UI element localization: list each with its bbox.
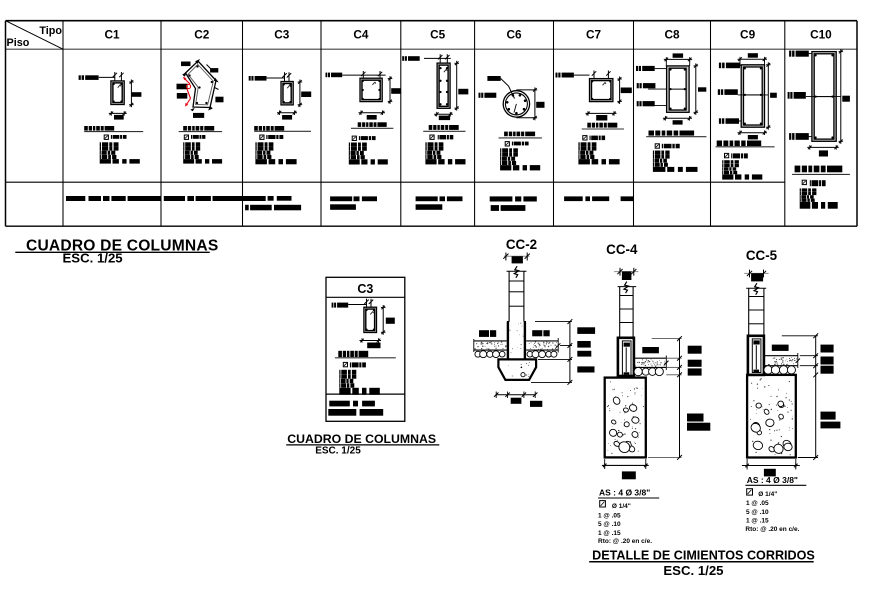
column C9 bottom dimension [738,132,768,134]
bottom row note C4 [330,196,377,209]
column C6 label bars [487,76,500,81]
CC-4 slab label bar [642,347,659,353]
column C1 section [111,81,124,105]
C3 detail section [364,307,377,332]
column C3 label bar [249,76,251,81]
C3 detail table frame [326,277,405,421]
column C6 leader line [501,79,515,99]
column C4 section [360,78,382,101]
column C1 leader + stirrup extensions [114,72,116,85]
svg-text:ESC. 1/25: ESC. 1/25 [315,446,361,457]
svg-text:C10: C10 [810,28,832,42]
CC-5 right dimension stack [782,333,841,460]
CC-2 bottom dimension [494,392,542,407]
CC-2 right dimension stack [531,319,595,385]
column C8 spec text [646,131,706,172]
C3 detail bottom dimension [360,340,382,342]
table grid [6,21,858,227]
column C5 bottom dimension [434,113,453,115]
svg-text:CC-4: CC-4 [606,242,638,257]
svg-text:1 @ .05: 1 @ .05 [746,500,769,507]
CC-5 top width dimension [744,272,768,274]
column C7 spec text [578,123,624,165]
column C5 leader + stirrup extensions [439,54,441,64]
column C9 right dimension [767,62,769,129]
svg-text:Ø 1/4": Ø 1/4" [612,503,631,510]
column C3 section [281,82,293,105]
CC-4 column shaft with break [618,282,637,338]
svg-text:C2: C2 [194,28,210,42]
svg-text:1 @ .05: 1 @ .05 [598,512,621,519]
column C2 label bars [181,62,191,67]
CC-4 top width dimension [614,271,638,273]
CC-4 right floor slab [634,356,668,376]
svg-text:5 @ .10: 5 @ .10 [746,509,769,516]
column C5 right dimension [456,61,458,111]
column C7 right dimension [619,77,621,104]
svg-text:CC-2: CC-2 [506,237,537,252]
column C1 spec text [84,126,143,164]
CC-5 right floor slab [764,353,800,374]
svg-text:C7: C7 [586,28,602,42]
svg-text:C3: C3 [357,282,373,296]
C3 detail spec text [335,351,396,395]
CC-5 slab label bar [772,345,789,351]
CC-2 slab label bars [479,330,489,337]
column C6 right dimension [516,89,536,91]
column C3 right dimension [299,80,301,108]
CC-2 right floor slab [526,338,560,358]
CC-2 footing [498,359,536,380]
svg-text:AS : 4 Ø 3/8": AS : 4 Ø 3/8" [599,488,650,498]
column C4 label bar [326,73,328,78]
column C4 right dimension [389,76,391,104]
svg-text:C6: C6 [506,28,522,42]
column C5 section [437,63,450,108]
column C8 bottom dimension [663,117,692,119]
column C9 section (two compartments) [741,65,764,127]
column C10 section (two compartments, tall) [812,52,836,142]
column C4 spec text [349,122,394,164]
bottom row note C1 [66,196,161,201]
svg-text:C9: C9 [740,28,756,42]
svg-text:ESC. 1/25: ESC. 1/25 [663,563,723,578]
svg-text:5 @ .10: 5 @ .10 [598,521,621,528]
column C9 label bars + leaders [719,63,721,69]
column C8 label bars + leaders [636,66,638,71]
column C10 right dimension [840,49,842,144]
column C6 circular section [503,91,529,117]
column C3 spec text [254,126,311,164]
column C7 section [590,79,613,102]
svg-text:C8: C8 [664,28,680,42]
column C6 spec text [499,132,542,171]
column C10 spec text [792,166,850,209]
svg-text:CC-5: CC-5 [746,248,778,263]
CC-2 top width dimension [504,255,530,257]
CC-5 column shaft with break [746,283,766,336]
column C7 label bar [556,73,558,78]
svg-text:CUADRO DE COLUMNAS: CUADRO DE COLUMNAS [287,432,436,446]
svg-text:1 @ .15: 1 @ .15 [746,518,769,525]
bottom row note C5 [416,196,463,209]
column C5 spec text [423,125,465,164]
C3 detail right dimension [382,305,384,335]
CC-5 rebar note AS [745,475,806,533]
CC-2 buried column [507,322,526,360]
column C9 spec text [716,141,775,180]
svg-text:DETALLE DE CIMIENTOS CORRIDOS: DETALLE DE CIMIENTOS CORRIDOS [592,548,815,562]
svg-text:AS : 4 Ø 3/8": AS : 4 Ø 3/8" [747,475,798,485]
column C5 label bar [402,56,404,61]
svg-text:Piso: Piso [7,37,30,49]
C3 detail leader + stirrup extensions [366,299,368,309]
column C10 bottom dimension [807,146,838,148]
column C4 leader + stirrup extensions [362,71,364,79]
column C8 right dimension [695,63,697,114]
CC-4 footing with stones [605,378,646,458]
CC-5 footing with stones [747,375,796,458]
column C3 leader + stirrup extensions [284,72,286,82]
svg-text:C1: C1 [104,28,120,42]
CC-2 left floor slab [474,339,507,358]
column C4 bottom dimension [359,112,386,114]
svg-text:Ø 1/4": Ø 1/4" [758,491,777,498]
bottom row note C7 [564,196,634,201]
column C8 top dimension [673,53,684,57]
C3 detail label bar [332,303,334,308]
column C3 bottom dimension [277,112,297,114]
column C1 bottom dimension [109,112,127,114]
column C1 right dimension [130,80,132,108]
header cell Tipo/Piso diagonal [6,21,64,50]
bottom row note C6 [490,196,537,211]
svg-text:C5: C5 [430,28,446,42]
svg-text:Tipo: Tipo [39,25,62,37]
bottom row note C3 [245,196,301,210]
CC-5 bottom dimension [745,465,799,467]
svg-text:C4: C4 [353,28,369,42]
svg-text:ESC. 1/25: ESC. 1/25 [63,250,123,265]
CC-4 buried column with rebar [618,338,634,376]
CC-2 column shaft with break [507,266,527,321]
svg-text:Rto: @ .20 en c/e.: Rto: @ .20 en c/e. [745,526,799,533]
svg-text:Rto: @ .20 en c/e.: Rto: @ .20 en c/e. [598,538,652,545]
svg-text:C3: C3 [274,28,290,42]
CC-4 bottom dimension [602,464,648,466]
CC-4 rebar note AS [598,488,659,546]
column C2 spec text [179,126,222,164]
bottom row note C2 [164,196,266,201]
column C7 bottom dimension [586,112,617,114]
column C2 red revision arrows [183,77,191,107]
CC-4 right dimension stack [648,336,710,460]
column C9 top dimension [748,53,758,58]
column C7 leader + stirrup extensions [593,71,595,80]
C3 detail bottom notes [329,401,350,407]
svg-text:1 @ .15: 1 @ .15 [598,530,621,537]
column C2 section (irregular pentagon) [182,59,219,111]
column C10 label bars + leaders [789,51,791,57]
column C1 label bar [79,75,81,80]
column C8 section (two compartments) [667,66,690,112]
CC-5 buried column with rebar [748,336,764,375]
